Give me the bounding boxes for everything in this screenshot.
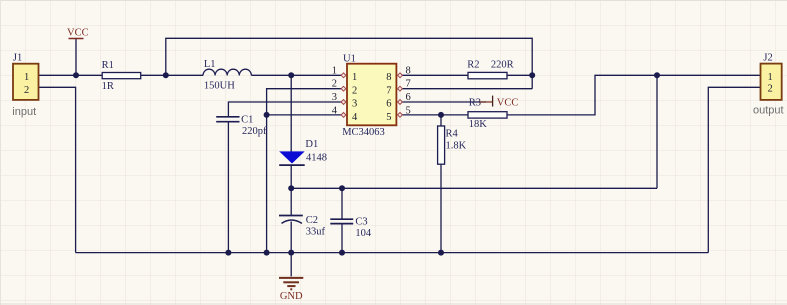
U1 pin 6 hotspot diamond bbox=[398, 100, 403, 105]
U1 pin 4 hotspot diamond bbox=[341, 113, 346, 118]
svg-text:7: 7 bbox=[386, 85, 391, 96]
wire J1 pin2 down to bus bbox=[39, 87, 76, 252]
svg-text:D1: D1 bbox=[305, 139, 318, 150]
wire U1 pin6 to VCC port bbox=[402, 101, 487, 103]
connector J2 bbox=[753, 53, 784, 117]
wire U1 pin7 bbox=[402, 88, 533, 90]
junction C1 at ground bus bbox=[225, 250, 231, 256]
wire R3 right to output node bbox=[507, 75, 761, 115]
svg-text:18K: 18K bbox=[469, 119, 488, 130]
wire D1 branch vertical bbox=[290, 75, 292, 151]
svg-text:output: output bbox=[753, 105, 784, 117]
svg-text:input: input bbox=[12, 106, 36, 118]
junction output node bbox=[654, 72, 660, 78]
junction VCC/input node bbox=[73, 72, 79, 78]
wire U1 pin5 to R3 bbox=[402, 114, 469, 116]
wire C2 bottom to bus bbox=[290, 222, 292, 253]
svg-text:4148: 4148 bbox=[306, 153, 327, 164]
junction R4 at ground bus bbox=[438, 250, 444, 256]
svg-text:1: 1 bbox=[24, 72, 29, 83]
power VCC (top left) bbox=[67, 28, 89, 39]
svg-text:1R: 1R bbox=[102, 81, 114, 92]
IC U1 MC34063 body bbox=[342, 54, 396, 139]
svg-text:7: 7 bbox=[406, 79, 411, 90]
U1 pin 1 hotspot diamond bbox=[341, 73, 346, 78]
wire C1 bottom to bus bbox=[227, 122, 229, 253]
U1 pin 5 hotspot diamond bbox=[398, 113, 403, 118]
U1 pin 8 hotspot diamond bbox=[398, 73, 403, 78]
U1 pin 7 hotspot diamond bbox=[398, 86, 403, 91]
wire U1 pin2 to pin4 jog bbox=[267, 89, 342, 115]
junction C2/GND at ground bus bbox=[288, 250, 294, 256]
resistor R2 bbox=[467, 60, 513, 79]
svg-text:MC34063: MC34063 bbox=[342, 127, 385, 138]
svg-text:C2: C2 bbox=[306, 215, 318, 226]
capacitor C3 bbox=[330, 216, 372, 239]
junction R1-L1 feedback tap bbox=[163, 72, 169, 78]
svg-text:220pf: 220pf bbox=[242, 126, 267, 137]
svg-text:1.8K: 1.8K bbox=[446, 140, 467, 151]
svg-text:33uf: 33uf bbox=[306, 226, 326, 237]
svg-text:8: 8 bbox=[386, 72, 391, 83]
wire top feedback line bbox=[166, 38, 532, 88]
svg-text:GND: GND bbox=[280, 291, 303, 302]
wire U1 pin3 to C1 bbox=[228, 102, 341, 117]
power VCC (right, at pin 6) bbox=[479, 96, 518, 109]
junction R2 right / feedback bbox=[529, 72, 535, 78]
junction C3 top bbox=[339, 185, 345, 191]
svg-text:6: 6 bbox=[406, 92, 411, 103]
junction pin5 / R4 top bbox=[438, 112, 444, 118]
svg-text:J1: J1 bbox=[13, 53, 22, 64]
resistor R4 bbox=[438, 126, 467, 164]
wire R2 right to node bbox=[507, 74, 532, 76]
wire pin2/4 node down to bus bbox=[266, 115, 268, 253]
svg-text:2: 2 bbox=[24, 85, 29, 96]
ground bbox=[279, 278, 303, 289]
svg-text:VCC: VCC bbox=[497, 98, 519, 109]
svg-text:4: 4 bbox=[332, 105, 338, 116]
wire output node down bbox=[656, 75, 658, 188]
svg-text:104: 104 bbox=[355, 228, 372, 239]
wire ground bus bbox=[76, 252, 709, 254]
wire J2 pin2 down to bus bbox=[708, 87, 760, 252]
svg-text:VCC: VCC bbox=[67, 28, 89, 39]
wire C3 bottom to bus bbox=[341, 224, 343, 253]
svg-text:2: 2 bbox=[768, 84, 773, 95]
inductor L1 bbox=[203, 59, 251, 91]
svg-text:C3: C3 bbox=[355, 216, 367, 227]
svg-text:8: 8 bbox=[406, 65, 411, 76]
capacitor C1 bbox=[216, 115, 267, 137]
svg-text:1: 1 bbox=[332, 65, 337, 76]
wire R4 top bbox=[440, 115, 442, 126]
svg-text:5: 5 bbox=[386, 112, 391, 123]
connector J1 bbox=[12, 53, 38, 118]
wire D1 cathode to C2 bbox=[290, 165, 292, 215]
wire R1 to L1 bbox=[141, 74, 203, 76]
junction D1 cathode / C2 bbox=[288, 185, 294, 191]
svg-text:1: 1 bbox=[352, 72, 357, 83]
svg-text:4: 4 bbox=[352, 112, 358, 123]
svg-text:2: 2 bbox=[352, 85, 357, 96]
svg-text:6: 6 bbox=[386, 99, 391, 110]
svg-text:J2: J2 bbox=[763, 53, 772, 64]
junction pin2/pin4 tie bbox=[264, 112, 270, 118]
resistor R3 bbox=[468, 98, 507, 131]
svg-text:3: 3 bbox=[332, 92, 337, 103]
wire C3 top bbox=[341, 188, 343, 219]
capacitor C2 (polarized) bbox=[279, 215, 326, 237]
svg-text:2: 2 bbox=[332, 79, 337, 90]
svg-text:1: 1 bbox=[768, 72, 773, 83]
svg-text:5: 5 bbox=[406, 105, 411, 116]
junction L1 output / D1 branch bbox=[288, 72, 294, 78]
wire GND stem bbox=[290, 253, 292, 277]
svg-text:U1: U1 bbox=[343, 54, 356, 65]
wire VCC stem bbox=[75, 39, 77, 75]
U1 pin 2 hotspot diamond bbox=[341, 86, 346, 91]
wire main row J1 pin1 to R1 bbox=[39, 74, 103, 76]
svg-text:R1: R1 bbox=[102, 60, 114, 71]
wire output mid line bbox=[291, 187, 657, 189]
wire L1 to U1 pin1 bbox=[251, 74, 341, 76]
svg-text:3: 3 bbox=[352, 99, 357, 110]
wire R4 bottom to bus bbox=[440, 164, 442, 252]
U1 pin 3 hotspot diamond bbox=[341, 100, 346, 105]
svg-text:C1: C1 bbox=[241, 115, 253, 126]
junction C3 at ground bus bbox=[339, 250, 345, 256]
svg-text:R2: R2 bbox=[467, 60, 479, 71]
svg-text:220R: 220R bbox=[491, 60, 514, 71]
junction pin2/4 line at ground bus bbox=[264, 250, 270, 256]
wire U1 pin8 to R2 bbox=[402, 74, 469, 76]
diode D1 4148 bbox=[279, 139, 327, 165]
svg-text:150UH: 150UH bbox=[204, 80, 235, 91]
svg-text:L1: L1 bbox=[204, 59, 216, 70]
svg-text:R4: R4 bbox=[446, 129, 459, 140]
resistor R1 bbox=[102, 60, 141, 92]
svg-text:R3: R3 bbox=[469, 98, 481, 109]
